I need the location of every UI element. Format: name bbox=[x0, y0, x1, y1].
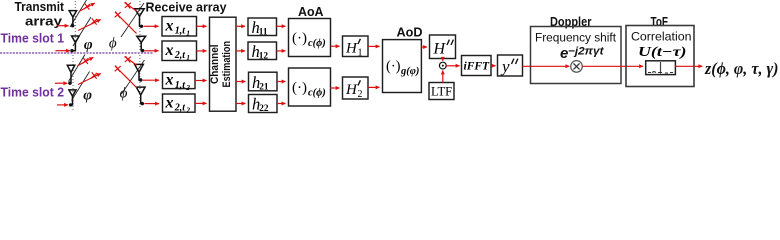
svg-text:g(φ): g(φ) bbox=[400, 66, 419, 77]
wire RX2b to x22 bbox=[145, 103, 160, 105]
wire h11 to c1 bbox=[277, 25, 286, 27]
box x_{1,t2} bbox=[163, 72, 196, 92]
wire ChEst to h22 bbox=[236, 103, 246, 105]
box h11 bbox=[248, 18, 277, 38]
wire y'' to otimes bbox=[523, 65, 570, 67]
svg-text:x: x bbox=[165, 42, 174, 59]
red ray C RX1 bbox=[125, 2, 137, 11]
svg-text:1: 1 bbox=[186, 53, 190, 62]
box LTF bbox=[429, 83, 454, 100]
antenna RX1 bottom bbox=[137, 36, 146, 50]
wire iFFT to y'' bbox=[491, 65, 496, 67]
red ray B TX2 bbox=[78, 72, 101, 84]
box H'' bbox=[430, 35, 456, 59]
wire ChEst to h12 bbox=[236, 50, 245, 52]
wire LTF up to odot bbox=[442, 71, 444, 83]
antenna RX2 bottom bbox=[136, 87, 145, 104]
feed arrow to TX2 top bbox=[55, 82, 67, 84]
svg-text:Estimation: Estimation bbox=[221, 41, 233, 88]
svg-text:ϕ: ϕ bbox=[120, 85, 128, 101]
box x_{2,t1} bbox=[162, 41, 197, 62]
wavefront diagonal TX1 bottom bbox=[73, 17, 91, 46]
wire x21 to ChEst bbox=[197, 50, 207, 52]
svg-text:H: H bbox=[433, 41, 447, 58]
feed arrow to TX1 bottom bbox=[56, 50, 71, 52]
box (.)_c(phi) slot1 bbox=[289, 19, 331, 57]
svg-text:1,t: 1,t bbox=[175, 80, 187, 91]
box h21 bbox=[249, 72, 278, 92]
wire otimes to correlator bbox=[582, 65, 643, 67]
wire x22 to ChEst bbox=[195, 102, 207, 104]
wire ChEst to h21 bbox=[236, 81, 246, 83]
svg-text:H: H bbox=[345, 82, 358, 98]
svg-text:−j2πγt: −j2πγt bbox=[568, 45, 604, 57]
svg-text:1: 1 bbox=[358, 48, 363, 59]
svg-text:Transmit: Transmit bbox=[15, 0, 65, 14]
wire correlator out to z bbox=[675, 65, 702, 67]
svg-text:2,t: 2,t bbox=[174, 50, 187, 61]
wire x12 to ChEst bbox=[195, 80, 207, 82]
box iFFT bbox=[462, 56, 492, 76]
label exp(-j 2 pi gamma t) bbox=[560, 45, 604, 62]
wire h21 to c2 bbox=[277, 81, 286, 83]
wavefront diagonal RX slot1 bbox=[121, 3, 144, 37]
wavefront diagonal TX1 top bbox=[70, 0, 87, 27]
box (.)_c(phi) slot2 bbox=[289, 68, 331, 106]
box (.)_g(phi) AoD bbox=[383, 40, 422, 93]
box h22 bbox=[249, 95, 278, 115]
svg-text:Frequency shift: Frequency shift bbox=[535, 31, 617, 45]
red ray A TX2 bbox=[77, 57, 93, 65]
svg-text:2: 2 bbox=[185, 83, 190, 92]
dotted array axis RX slot2 bbox=[139, 55, 141, 108]
red ray D RX2 bbox=[115, 66, 137, 88]
svg-text:Channel: Channel bbox=[209, 44, 221, 84]
svg-text:x: x bbox=[165, 72, 174, 89]
svg-text:22: 22 bbox=[259, 104, 269, 114]
svg-text:ϕ: ϕ bbox=[109, 35, 117, 51]
svg-text:21: 21 bbox=[259, 83, 269, 93]
wire RX2a to x12 bbox=[143, 79, 160, 81]
wavefront diagonal TX2 bottom bbox=[72, 72, 90, 101]
antenna TX1 top bbox=[69, 11, 77, 26]
svg-text:x: x bbox=[165, 18, 174, 35]
feed arrow to TX1 top bbox=[57, 25, 69, 27]
svg-text:Correlation: Correlation bbox=[631, 30, 692, 44]
dotted array axis TX slot1 bbox=[74, 1, 76, 52]
red ray D RX1 bbox=[115, 12, 137, 34]
svg-text:y: y bbox=[500, 57, 510, 76]
odot multiplier node bbox=[439, 62, 446, 69]
svg-text:LTF: LTF bbox=[431, 85, 452, 99]
correlator icon bbox=[646, 61, 676, 75]
svg-text:φ: φ bbox=[84, 37, 93, 53]
dotted array axis TX slot2 bbox=[72, 55, 74, 110]
dashed separator bbox=[0, 52, 154, 54]
svg-text:z(ϕ, φ, τ, γ): z(ϕ, φ, τ, γ) bbox=[704, 59, 778, 78]
wire c1 to H'1 bbox=[331, 45, 340, 47]
svg-text:2: 2 bbox=[358, 89, 363, 100]
svg-text:φ: φ bbox=[83, 87, 92, 103]
dotted array axis RX slot1 bbox=[139, 1, 141, 52]
label: Transmit array bbox=[15, 0, 65, 29]
wire H'' down to odot bbox=[442, 59, 444, 61]
box ToF bbox=[626, 26, 694, 87]
feed arrow to TX2 bottom bbox=[57, 104, 68, 106]
svg-text:Time slot 2: Time slot 2 bbox=[1, 86, 65, 100]
box y'' bbox=[498, 55, 523, 76]
svg-text:Receive array: Receive array bbox=[146, 1, 227, 15]
box Channel Estimation bbox=[209, 17, 236, 111]
box x_{1,t1} bbox=[162, 17, 197, 38]
wavefront diagonal RX slot2 bbox=[122, 60, 145, 94]
wire h22 to c2 bbox=[277, 103, 286, 105]
svg-text:2: 2 bbox=[185, 106, 190, 115]
svg-text:(·): (·) bbox=[386, 58, 401, 74]
wavefront diagonal TX2 top bbox=[69, 55, 86, 82]
box h12 bbox=[248, 42, 277, 62]
svg-text:H: H bbox=[345, 41, 358, 57]
wire H'2 to AoD bbox=[368, 86, 380, 88]
svg-text:Time slot 1: Time slot 1 bbox=[1, 31, 65, 45]
svg-text:2,t: 2,t bbox=[174, 103, 187, 114]
svg-text:x: x bbox=[165, 94, 174, 111]
box H'1 bbox=[343, 36, 369, 59]
red ray C RX2 bbox=[125, 56, 137, 65]
antenna RX2 top bbox=[135, 64, 144, 80]
box x_{2,t2} bbox=[163, 94, 196, 115]
svg-text:1,t: 1,t bbox=[175, 26, 187, 37]
antenna TX2 top bbox=[67, 65, 75, 83]
svg-text:AoA: AoA bbox=[298, 4, 324, 19]
wire ChEst to h11 bbox=[236, 25, 245, 27]
svg-text:iFFT: iFFT bbox=[464, 61, 491, 73]
antenna TX2 bottom (phi shifter) bbox=[69, 90, 76, 105]
red ray B TX1 bbox=[78, 18, 101, 30]
wire h12 to c1 bbox=[277, 50, 286, 52]
red ray A TX1 bbox=[79, 3, 95, 11]
svg-text:ToF: ToF bbox=[651, 14, 669, 29]
svg-text:1: 1 bbox=[186, 29, 190, 38]
wire odot to iFFT bbox=[446, 65, 459, 67]
box H'2 bbox=[343, 77, 369, 100]
svg-text:(·): (·) bbox=[292, 80, 307, 96]
wire H'1 to AoD bbox=[368, 45, 380, 47]
wire RX1b to x21 bbox=[145, 50, 159, 52]
antenna RX1 top bbox=[135, 9, 144, 27]
otimes doppler multiplier bbox=[571, 61, 583, 73]
svg-text:c(ϕ): c(ϕ) bbox=[308, 87, 326, 98]
svg-text:12: 12 bbox=[259, 52, 269, 62]
svg-text:U(t−τ): U(t−τ) bbox=[638, 44, 687, 59]
svg-text:c(ϕ): c(ϕ) bbox=[308, 38, 326, 49]
svg-text:array: array bbox=[25, 15, 62, 29]
svg-text:(·): (·) bbox=[292, 31, 307, 47]
svg-text:AoD: AoD bbox=[397, 25, 423, 40]
wire AoD to H'' bbox=[421, 46, 427, 48]
antenna TX1 bottom (phi shifter) bbox=[72, 36, 80, 51]
wire RX1a to x11 bbox=[144, 25, 159, 27]
box Doppler bbox=[531, 27, 622, 84]
wire x11 to ChEst bbox=[197, 25, 207, 27]
wire c2 to H'2 bbox=[331, 87, 340, 89]
svg-text:11: 11 bbox=[259, 28, 268, 38]
